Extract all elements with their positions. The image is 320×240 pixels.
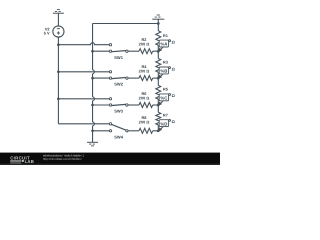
svg-text:R7: R7 <box>163 112 168 117</box>
ground symbol top-right <box>152 18 164 20</box>
wire R8 to chain <box>153 130 159 132</box>
svg-text:R5: R5 <box>163 87 169 92</box>
wire ground branch row1 <box>93 50 110 52</box>
svg-text:5 V: 5 V <box>44 31 50 36</box>
wire V2 bottom to bus <box>57 37 59 45</box>
junction ground bus row2 <box>91 77 94 80</box>
svg-text:%B: %B <box>160 69 167 74</box>
wire V2 top to ground <box>57 13 59 26</box>
potentiometer R7 body <box>156 112 161 125</box>
junction left bus row1 <box>57 43 60 46</box>
potentiometer R5 wiper arrow <box>160 95 169 104</box>
svg-text:SW3: SW3 <box>114 109 123 114</box>
potentiometer R5 body <box>156 85 161 99</box>
potentiometer R1 wiper terminal <box>169 40 171 42</box>
wire R6 to chain <box>153 104 159 106</box>
ground symbol above V2 <box>53 12 64 14</box>
potentiometer R5 wiper terminal <box>169 94 171 96</box>
junction left bus row3 <box>57 97 60 100</box>
resistor R8 200ohm <box>139 128 153 133</box>
svg-text:%C: %C <box>160 96 167 101</box>
junction ground bus row1 <box>91 50 94 53</box>
wire R4 to chain <box>153 77 159 79</box>
junction left bus row2 <box>57 70 60 73</box>
switch SW3 <box>109 98 111 100</box>
wire V2 branch row1 with hop <box>58 43 109 45</box>
node chain row2 <box>157 77 160 80</box>
ground symbol bottom <box>87 141 98 143</box>
svg-text:http://circuitlab.com/c/3kdbnv: http://circuitlab.com/c/3kdbnv <box>43 157 82 161</box>
resistor R6 200ohm <box>139 103 153 108</box>
potentiometer R1 wiper arrow <box>160 41 169 50</box>
wire V2 branch row3 <box>58 98 109 100</box>
wire ground branch row3 <box>93 104 110 106</box>
potentiometer R3 wiper terminal <box>169 67 171 69</box>
wire SW2 to R4 <box>128 77 139 79</box>
switch SW1 <box>109 44 111 46</box>
svg-text:SW1: SW1 <box>114 55 123 60</box>
node chain top <box>157 22 160 25</box>
wire R2 to chain <box>153 50 159 52</box>
wire ground bus vertical <box>92 24 94 70</box>
wire SW4 to R8 <box>128 130 139 132</box>
potentiometer R3 body <box>156 59 161 73</box>
wire V2 branch row2 <box>58 71 109 73</box>
svg-text:200 Ω: 200 Ω <box>139 42 150 47</box>
wire ground branch row2 <box>93 77 110 79</box>
potentiometer R3 wiper position box %B <box>159 67 168 74</box>
wire left bus vertical <box>57 45 59 124</box>
resistor R4 200ohm <box>139 76 153 81</box>
svg-text:R3: R3 <box>163 60 169 65</box>
potentiometer R7 wiper terminal <box>169 119 171 121</box>
wire chain lead R3 <box>157 51 159 58</box>
svg-text:R1: R1 <box>163 33 169 38</box>
junction ground bus row4 <box>91 129 94 132</box>
svg-text:%D: %D <box>160 121 167 126</box>
svg-text:LAB: LAB <box>25 159 34 164</box>
svg-text:%A: %A <box>160 42 167 47</box>
wire SW1 to R2 <box>128 50 139 52</box>
potentiometer R1 body <box>156 31 161 46</box>
wire chain lead R1 <box>157 24 159 31</box>
resistor R2 200ohm <box>139 49 153 54</box>
svg-text:SW4: SW4 <box>114 134 123 139</box>
node chain row4 <box>157 129 160 132</box>
wire chain lead R5 <box>157 78 159 85</box>
svg-text:200 Ω: 200 Ω <box>139 68 150 73</box>
wire ground branch row4 <box>93 130 110 132</box>
wire left bus corner to SW4 <box>58 123 109 125</box>
svg-text:SW2: SW2 <box>114 82 123 87</box>
potentiometer R3 wiper arrow <box>160 68 169 77</box>
switch SW4 <box>109 123 111 125</box>
node chain row1 <box>157 50 160 53</box>
svg-text:200 Ω: 200 Ω <box>139 119 150 124</box>
voltage source V2 5V <box>53 26 64 37</box>
wire chain lead R7 <box>157 105 159 112</box>
node chain row3 <box>157 104 160 107</box>
wire top node <box>93 23 159 25</box>
wire chain top to ground <box>157 19 159 23</box>
potentiometer R7 wiper arrow <box>160 121 169 130</box>
watermark bar <box>0 153 220 165</box>
potentiometer R5 wiper position box %C <box>159 94 168 101</box>
wire ground bus top corner <box>92 23 94 25</box>
svg-text:200 Ω: 200 Ω <box>139 95 150 100</box>
potentiometer R7 wiper position box %D <box>159 120 168 127</box>
switch SW2 <box>109 71 111 73</box>
junction ground bus row3 <box>91 104 94 107</box>
wire SW3 to R6 <box>128 104 139 106</box>
potentiometer R1 wiper position box %A <box>159 40 168 47</box>
